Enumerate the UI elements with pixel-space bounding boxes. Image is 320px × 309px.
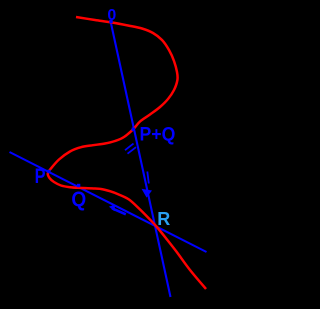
wire: line through P Q R [10,152,207,252]
tick marks below P+Q on 0-R line [125,144,134,151]
node P+Q dot [132,128,135,131]
svg-text:R: R [157,209,170,229]
svg-text:P+Q: P+Q [140,123,176,145]
svg-text:P: P [35,164,46,187]
arrow on 0-R line (barb stroke) [147,172,149,184]
arrow on P-Q line (shaft) [112,208,126,214]
node P dot [47,170,50,173]
node 0 (top point dot) [109,20,112,23]
arrow on P-Q line (head pointing up-left) [109,205,115,212]
node Q dot [77,184,80,187]
arrow on 0-R line (head pointing down) [142,189,153,198]
wire: line through 0, P+Q, R [111,21,171,297]
svg-text:Q: Q [71,188,86,211]
svg-text:0: 0 [107,7,116,24]
elliptic curve (red) [48,17,206,289]
